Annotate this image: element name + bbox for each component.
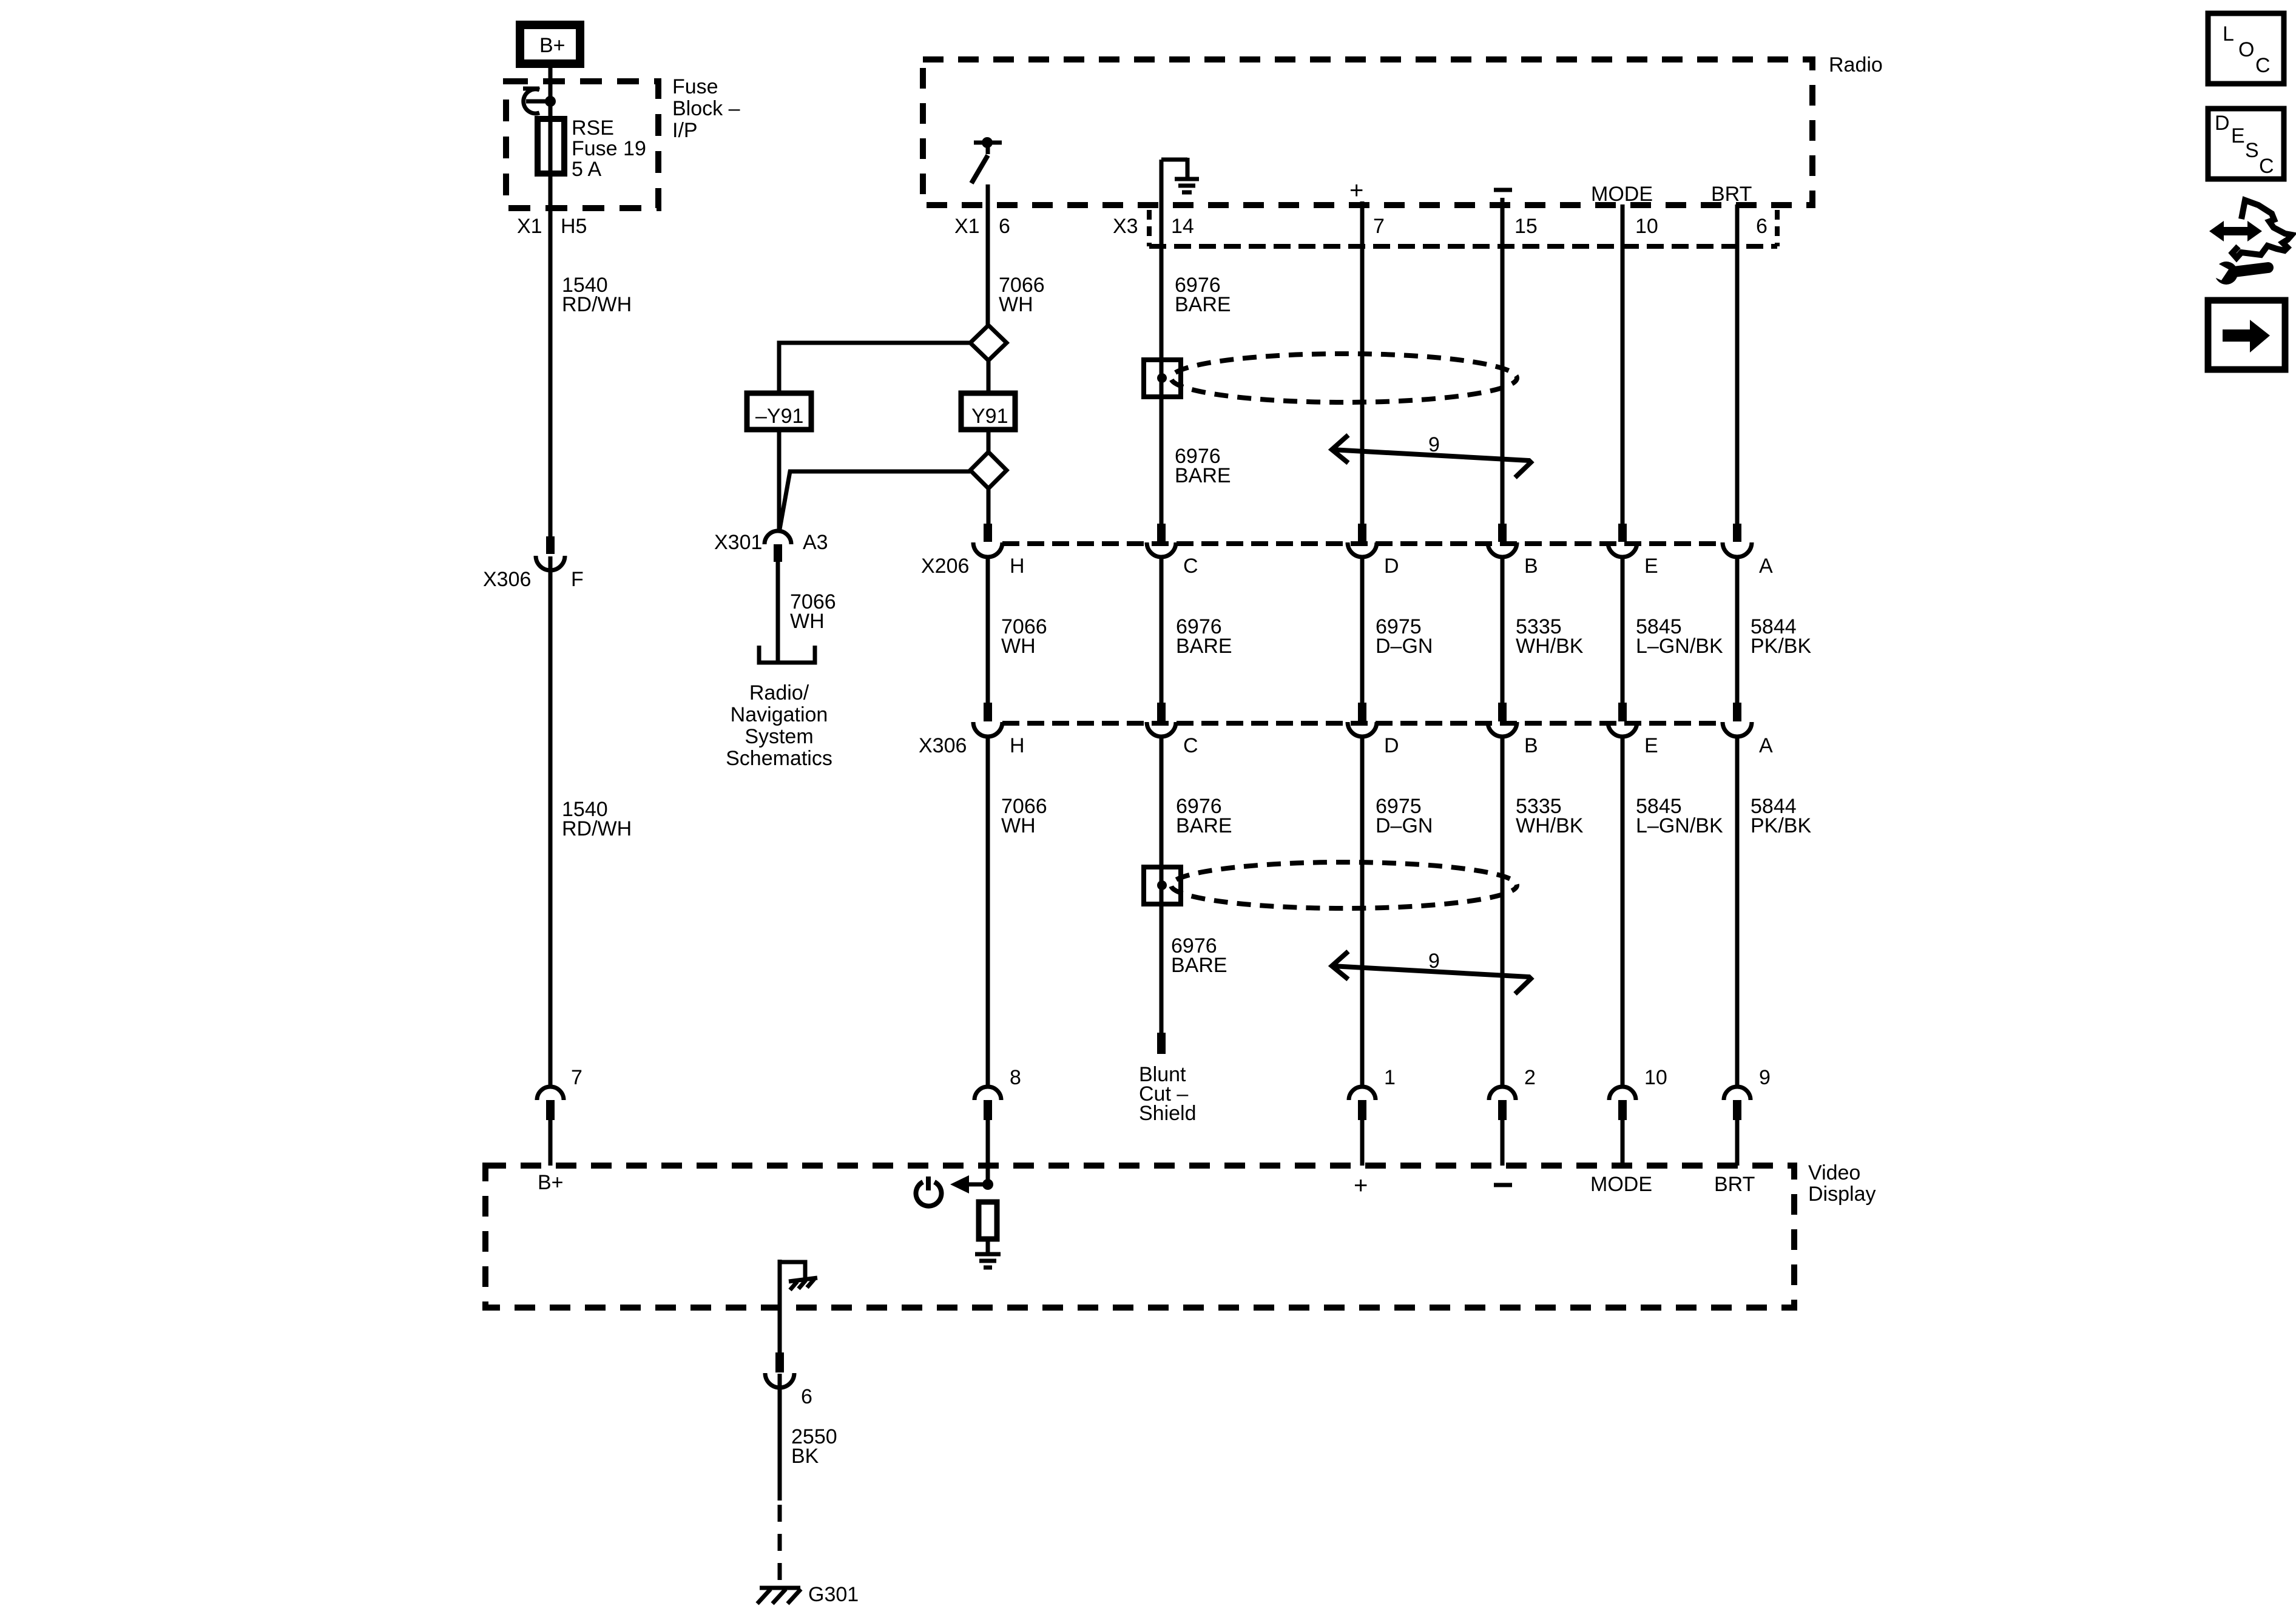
svg-text:Y91: Y91: [971, 405, 1008, 428]
in-line connector pin 2: [1489, 1087, 1516, 1120]
svg-text:7: 7: [571, 1066, 582, 1089]
svg-text:WH/BK: WH/BK: [1516, 814, 1584, 837]
svg-text:C: C: [1183, 555, 1198, 578]
X206 pin E: [1608, 524, 1637, 557]
wire lower branch from diamond: [780, 471, 970, 529]
radio internal ground on shield: [1161, 158, 1199, 192]
svg-text:X206: X206: [921, 555, 969, 578]
X306 pin H: [973, 703, 1002, 737]
wire 5335 WH/BK mid: [1501, 556, 1505, 703]
off-page text Radio/Navigation System Schematics: [726, 681, 832, 770]
svg-text:Fuse: Fuse: [672, 75, 718, 98]
wire 2550 BK: [778, 1374, 782, 1501]
svg-text:E: E: [2231, 124, 2245, 147]
svg-text:PK/BK: PK/BK: [1751, 635, 1811, 658]
twisted/shielded cable symbol upper: [1144, 354, 1517, 402]
icon DESC box: [2208, 109, 2284, 179]
X306 pin D: [1348, 703, 1377, 737]
svg-text:BARE: BARE: [1175, 464, 1231, 487]
wire into video display B+: [549, 1120, 553, 1166]
wire 6975 D-GN lower: [1360, 735, 1365, 1087]
wire 7066 WH mid: [986, 556, 990, 703]
svg-text:B: B: [1524, 555, 1538, 578]
svg-text:RD/WH: RD/WH: [562, 817, 632, 840]
svg-text:X301: X301: [714, 531, 762, 554]
in-line connector pin 8: [974, 1087, 1001, 1120]
svg-text:WH: WH: [790, 610, 825, 633]
wire to Y91: [987, 360, 991, 393]
svg-text:B+: B+: [539, 34, 566, 57]
radio internal - label: [1494, 188, 1512, 192]
svg-text:7: 7: [1373, 215, 1385, 238]
svg-text:A: A: [1759, 555, 1773, 578]
svg-text:PK/BK: PK/BK: [1751, 814, 1811, 837]
wire 5335 WH/BK radio to X206: [1501, 198, 1505, 524]
svg-text:G301: G301: [808, 1583, 859, 1606]
svg-text:A3: A3: [803, 531, 828, 554]
svg-text:Schematics: Schematics: [726, 747, 832, 770]
fuse block I/P dashed box: [506, 81, 658, 208]
svg-text:Radio/: Radio/: [749, 681, 809, 704]
svg-text:X1: X1: [517, 215, 542, 238]
wire diamond to X206: [987, 488, 991, 524]
wire 5845 L-GN/BK mid: [1621, 556, 1625, 703]
svg-text:F: F: [571, 568, 584, 591]
svg-text:X306: X306: [919, 734, 967, 757]
component box -Y91: [747, 393, 811, 430]
svg-text:8: 8: [1010, 1066, 1021, 1089]
wire upper branch to -Y91: [779, 343, 970, 393]
wire 7066 WH to off-page: [776, 562, 780, 661]
svg-text:Shield: Shield: [1139, 1102, 1197, 1125]
X306 dashed connector line: [1002, 721, 1723, 726]
drawing note arrow 9 upper: [1332, 435, 1531, 478]
wire 5335 WH/BK lower: [1501, 735, 1505, 1087]
svg-text:WH: WH: [999, 293, 1033, 316]
svg-text:B: B: [1524, 734, 1538, 757]
wire 6975 D-GN mid: [1360, 556, 1365, 703]
svg-text:5 A: 5 A: [572, 158, 601, 181]
fuse block bus bail symbol: [523, 89, 546, 113]
video display pin label -: [1494, 1183, 1512, 1187]
wire 7066 WH from switch to diamond: [986, 184, 990, 328]
in-line connector X301 pin A3: [765, 531, 791, 562]
wire 5845 L-GN/BK lower: [1621, 735, 1625, 1087]
in-line connector pin 10: [1609, 1087, 1636, 1120]
svg-text:H: H: [1010, 734, 1025, 757]
X206 dashed connector line: [1002, 541, 1723, 546]
svg-text:10: 10: [1635, 215, 1658, 238]
svg-text:WH: WH: [1001, 635, 1036, 658]
svg-text:D: D: [2215, 112, 2230, 135]
svg-text:+: +: [1349, 177, 1363, 204]
icon forward arrow box: [2208, 300, 2285, 370]
svg-text:System: System: [745, 725, 813, 748]
blunt cut shield termination: [1157, 1033, 1166, 1054]
svg-text:H: H: [1010, 555, 1025, 578]
svg-text:X1: X1: [954, 215, 980, 238]
svg-text:BARE: BARE: [1176, 814, 1232, 837]
junction node at fuse input: [545, 96, 556, 107]
svg-text:S: S: [2245, 139, 2259, 162]
X306 pin C: [1147, 703, 1176, 737]
svg-text:MODE: MODE: [1591, 183, 1653, 206]
X206 pin A: [1723, 524, 1752, 557]
X206 pin B: [1488, 524, 1517, 557]
svg-text:6: 6: [801, 1385, 812, 1408]
svg-text:B+: B+: [538, 1171, 564, 1194]
svg-text:X306: X306: [483, 568, 531, 591]
wire 6976 BARE lower: [1160, 735, 1164, 1033]
in-line connector pin 7 at video display: [537, 1087, 564, 1120]
svg-text:D: D: [1384, 734, 1399, 757]
splice diamond upper: [970, 325, 1007, 360]
wire 5845 L-GN/BK radio to X206: [1621, 204, 1625, 524]
video display internal: power symbol: [916, 1176, 941, 1206]
X306 pin E: [1608, 703, 1637, 737]
svg-text:BRT: BRT: [1714, 1173, 1755, 1196]
video display dashed box: [485, 1166, 1794, 1308]
radio dashed box: [923, 59, 1812, 205]
X306 pin B: [1488, 703, 1517, 737]
radio internal switch: [971, 143, 1002, 183]
svg-text:+: +: [1354, 1172, 1368, 1199]
video display internal: junction node: [982, 1179, 993, 1190]
svg-text:E: E: [1644, 734, 1658, 757]
wire 5844 PK/BK lower: [1735, 735, 1740, 1087]
svg-text:A: A: [1759, 734, 1773, 757]
svg-text:D: D: [1384, 555, 1399, 578]
svg-text:D–GN: D–GN: [1376, 814, 1433, 837]
svg-text:Video: Video: [1808, 1161, 1860, 1184]
svg-text:C: C: [2255, 54, 2271, 77]
svg-text:14: 14: [1171, 215, 1194, 238]
svg-text:Fuse 19: Fuse 19: [572, 137, 646, 160]
svg-text:9: 9: [1428, 950, 1440, 973]
icon LOC box: [2208, 13, 2284, 84]
radio connector X3 dashed strip: [1149, 210, 1777, 246]
in-line connector pin 6: [765, 1352, 794, 1388]
power symbol B+ (battery feed box): [516, 21, 584, 68]
twisted/shielded cable symbol lower: [1144, 862, 1517, 908]
svg-text:D–GN: D–GN: [1376, 635, 1433, 658]
svg-text:I/P: I/P: [672, 119, 698, 142]
svg-text:WH/BK: WH/BK: [1516, 635, 1584, 658]
svg-text:6: 6: [1756, 215, 1768, 238]
svg-text:15: 15: [1514, 215, 1538, 238]
ground G301: [757, 1588, 801, 1604]
fuse RSE Fuse 19 5A: [538, 119, 564, 174]
video display internal: resistor: [979, 1202, 997, 1239]
wire -Y91 down to X301: [777, 430, 782, 530]
component box Y91: [961, 393, 1015, 430]
X306 pin A: [1723, 703, 1752, 737]
wire Y91 to diamond: [987, 430, 991, 454]
in-line connector pin 9: [1724, 1087, 1751, 1120]
video display internal: chassis ground branch: [780, 1260, 805, 1352]
svg-text:9: 9: [1759, 1066, 1771, 1089]
wire 6976 BARE mid: [1160, 556, 1164, 703]
svg-text:RD/WH: RD/WH: [562, 293, 632, 316]
svg-text:X3: X3: [1113, 215, 1138, 238]
svg-text:L–GN/BK: L–GN/BK: [1636, 814, 1723, 837]
video display internal: ground: [975, 1254, 1001, 1268]
svg-text:L–GN/BK: L–GN/BK: [1636, 635, 1723, 658]
svg-text:2: 2: [1524, 1066, 1536, 1089]
X206 pin H: [973, 524, 1002, 557]
svg-text:L: L: [2223, 22, 2234, 46]
wire 1540 RD/WH (lower): [549, 556, 553, 1087]
icon diagnostic wrench/arrow: [2204, 200, 2292, 285]
drawing note arrow 9 lower: [1332, 951, 1531, 994]
dashed wire to G301: [778, 1505, 782, 1587]
svg-text:9: 9: [1428, 433, 1440, 456]
in-line connector pin 1: [1349, 1087, 1376, 1120]
svg-text:6: 6: [999, 215, 1010, 238]
svg-text:RSE: RSE: [572, 116, 614, 140]
off-page reference bracket: [759, 646, 815, 663]
svg-text:BARE: BARE: [1175, 293, 1231, 316]
svg-text:Block –: Block –: [672, 97, 740, 120]
wire 5844 PK/BK radio to X206: [1735, 204, 1740, 524]
svg-text:Display: Display: [1808, 1183, 1876, 1206]
svg-text:BK: BK: [791, 1445, 819, 1468]
video display internal: enable arrow: [968, 1183, 988, 1187]
wire 7066 WH lower: [986, 735, 990, 1087]
splice diamond lower: [970, 452, 1007, 488]
svg-text:H5: H5: [561, 215, 587, 238]
svg-text:O: O: [2238, 38, 2254, 61]
svg-text:Radio: Radio: [1829, 53, 1883, 76]
wire 5844 PK/BK mid: [1735, 556, 1740, 703]
X206 pin D: [1348, 524, 1377, 557]
svg-text:MODE: MODE: [1590, 1173, 1652, 1196]
in-line connector X306 pin F: [536, 536, 565, 570]
svg-text:C: C: [2259, 155, 2274, 178]
X206 pin C: [1147, 524, 1176, 557]
svg-text:Navigation: Navigation: [731, 703, 828, 726]
svg-text:BARE: BARE: [1176, 635, 1232, 658]
wire 6976 BARE radio to X206: [1160, 160, 1164, 524]
svg-text:–Y91: –Y91: [755, 405, 803, 428]
svg-text:1: 1: [1384, 1066, 1396, 1089]
svg-text:10: 10: [1644, 1066, 1667, 1089]
svg-text:BRT: BRT: [1711, 183, 1752, 206]
svg-text:C: C: [1183, 734, 1198, 757]
chassis ground symbol: [789, 1278, 817, 1290]
svg-text:WH: WH: [1001, 814, 1036, 837]
svg-text:E: E: [1644, 555, 1658, 578]
wire 1540 RD/WH from B+ to X306 F: [549, 68, 553, 536]
wire 6975 D-GN radio to X206: [1360, 201, 1365, 524]
svg-text:BARE: BARE: [1171, 954, 1227, 977]
